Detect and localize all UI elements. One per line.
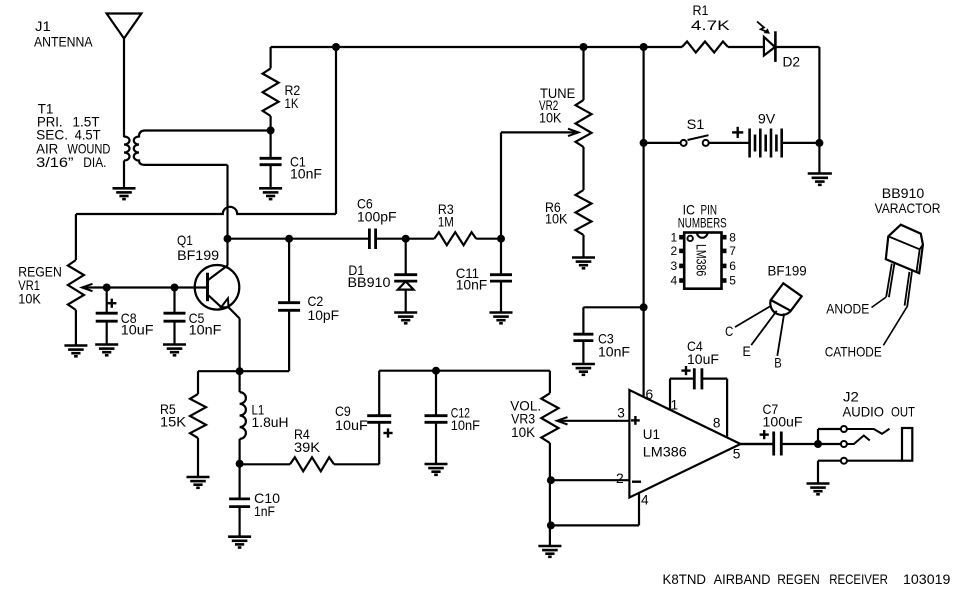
svg-text:DIA.: DIA. [83,154,106,170]
svg-text:ANTENNA: ANTENNA [34,34,93,50]
svg-text:R1: R1 [693,2,709,18]
svg-text:9V: 9V [758,111,776,127]
svg-text:5: 5 [733,445,741,461]
svg-text:J2: J2 [843,389,859,405]
svg-text:100pF: 100pF [357,209,397,225]
svg-text:BF199: BF199 [177,247,219,263]
svg-text:103019: 103019 [903,571,951,587]
svg-text:10K: 10K [511,424,536,440]
svg-text:E: E [743,343,751,359]
svg-text:1.8uH: 1.8uH [252,414,289,430]
svg-text:K8TND: K8TND [663,571,707,587]
svg-text:REGEN: REGEN [777,571,820,587]
svg-text:1: 1 [671,397,679,413]
svg-text:3: 3 [617,404,625,420]
svg-text:15K: 15K [160,414,187,430]
svg-text:10K: 10K [539,109,562,125]
svg-text:BB910: BB910 [348,274,391,290]
svg-text:10K: 10K [18,290,41,306]
svg-text:3: 3 [671,259,678,273]
svg-text:10nF: 10nF [189,321,222,337]
svg-text:5: 5 [729,274,736,288]
svg-text:1: 1 [671,230,678,244]
svg-text:LM386: LM386 [693,244,708,276]
svg-text:NUMBERS: NUMBERS [678,215,727,231]
svg-text:10nF: 10nF [456,276,488,292]
svg-text:C: C [725,323,733,339]
svg-text:2: 2 [616,470,624,486]
svg-text:10nF: 10nF [451,417,480,433]
svg-text:CATHODE: CATHODE [825,344,882,360]
svg-text:6: 6 [729,259,736,273]
svg-text:39K: 39K [294,439,321,455]
svg-text:3/16”: 3/16” [36,154,74,170]
svg-text:BB910: BB910 [882,185,925,201]
svg-text:2: 2 [671,244,678,258]
svg-text:VARACTOR: VARACTOR [875,200,941,216]
svg-text:J1: J1 [35,18,51,34]
svg-text:10nF: 10nF [598,344,630,360]
svg-text:BF199: BF199 [768,263,807,279]
svg-text:OUT: OUT [891,404,915,420]
svg-text:1M: 1M [438,214,454,230]
svg-text:LM386: LM386 [643,443,687,459]
svg-text:Q1: Q1 [177,232,193,248]
svg-text:B: B [774,355,782,371]
svg-text:10pF: 10pF [308,307,340,323]
svg-text:10nF: 10nF [290,166,322,182]
svg-text:10uF: 10uF [335,417,368,433]
svg-text:AIRBAND: AIRBAND [714,571,771,587]
svg-text:U1: U1 [643,426,660,442]
svg-text:S1: S1 [687,116,705,132]
svg-text:100uF: 100uF [763,413,803,429]
svg-text:10uF: 10uF [687,351,719,367]
svg-text:AUDIO: AUDIO [843,404,885,420]
svg-text:1K: 1K [285,95,300,111]
svg-text:8: 8 [729,230,736,244]
svg-text:4.7K: 4.7K [691,17,731,33]
svg-text:4: 4 [641,491,649,507]
svg-text:10K: 10K [545,211,568,227]
svg-text:8: 8 [713,414,721,430]
svg-text:ANODE: ANODE [826,300,869,316]
svg-text:7: 7 [729,244,736,258]
svg-text:D2: D2 [783,53,801,69]
svg-text:10uF: 10uF [121,321,154,337]
svg-text:6: 6 [646,386,654,402]
svg-text:4: 4 [671,274,678,288]
svg-text:1nF: 1nF [254,503,275,519]
svg-text:RECEIVER: RECEIVER [829,571,888,587]
